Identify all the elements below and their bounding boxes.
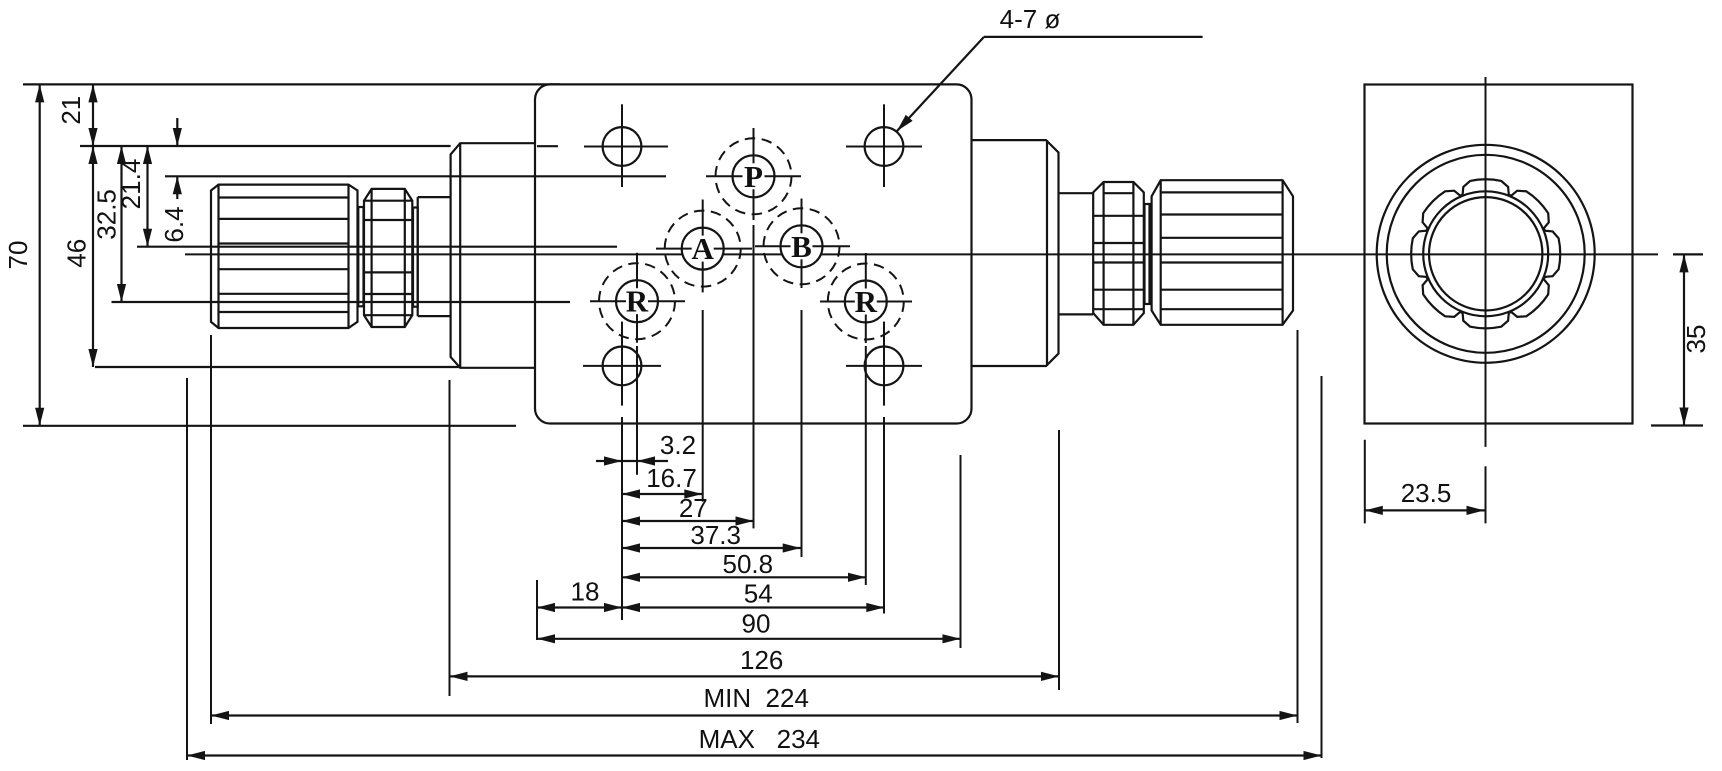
- dimension 54: [622, 606, 884, 608]
- extension line 6.4 / P center y176: [165, 175, 666, 177]
- washer 3: [1145, 204, 1150, 304]
- end view chamfer circle: [1387, 155, 1585, 353]
- port R letter: [626, 288, 648, 314]
- svg-text:37.3: 37.3: [690, 520, 741, 550]
- dimension 16.7: [622, 493, 702, 495]
- svg-text:18: 18: [571, 577, 600, 607]
- svg-text:21: 21: [56, 96, 86, 125]
- mounting hole top-left: [603, 127, 642, 166]
- dimension MIN: [211, 714, 1298, 716]
- svg-text:70: 70: [3, 241, 33, 270]
- surface line segment inside block: [537, 145, 558, 147]
- svg-text:R: R: [626, 284, 649, 319]
- dimension 3.2: [596, 460, 668, 462]
- svg-text:A: A: [692, 231, 715, 266]
- extension line bottom surface y367: [95, 366, 460, 368]
- svg-text:B: B: [791, 229, 812, 264]
- extension line top edge (70/21): [23, 83, 560, 85]
- callout 4-7 diameter leader: [984, 36, 1203, 38]
- dimension 21.4: [146, 146, 148, 247]
- left flange: [451, 143, 535, 368]
- extension line 32.5 y302: [112, 301, 571, 303]
- svg-text:27: 27: [679, 493, 708, 523]
- svg-text:MAX 234: MAX 234: [699, 724, 820, 754]
- end view knurled knob profile: [1411, 179, 1560, 328]
- left stem: [418, 196, 451, 198]
- port B letter: [791, 233, 813, 259]
- end view square: [1365, 85, 1633, 424]
- svg-text:16.7: 16.7: [646, 463, 697, 493]
- left locknut: [364, 189, 412, 327]
- svg-text:P: P: [744, 159, 763, 194]
- port extension lines down: [621, 417, 623, 620]
- right locknut knurl lines: [1104, 192, 1134, 194]
- dimension 23.5: [1364, 440, 1366, 524]
- svg-text:23.5: 23.5: [1401, 478, 1452, 508]
- port A dashed pitch circle: [665, 211, 741, 287]
- port B cross lines: [755, 245, 850, 247]
- dimension 18: [537, 606, 622, 608]
- extension line top surface y146: [80, 145, 451, 147]
- dimension 21: [92, 84, 94, 146]
- right flange: [972, 140, 1059, 366]
- svg-text:54: 54: [744, 579, 773, 609]
- svg-text:90: 90: [742, 609, 771, 639]
- left knob inner edges: [217, 185, 219, 328]
- valve body block: [535, 84, 972, 423]
- extension line bottom (70) y426: [23, 425, 516, 427]
- svg-text:126: 126: [740, 645, 783, 675]
- svg-text:21.4: 21.4: [116, 159, 146, 210]
- port R cross lines: [590, 300, 685, 302]
- right knob body: [1152, 180, 1293, 325]
- svg-text:3.2: 3.2: [660, 430, 696, 460]
- svg-text:4-7 ø: 4-7 ø: [1000, 4, 1061, 34]
- port R circle: [616, 280, 658, 322]
- extension line 21.4 y247: [137, 246, 617, 248]
- right locknut: [1093, 182, 1144, 325]
- left locknut knurl lines: [364, 200, 412, 202]
- port B dashed pitch circle: [764, 208, 840, 284]
- svg-text:35: 35: [1681, 325, 1711, 354]
- right neck: [1059, 192, 1094, 194]
- mounting hole bottom-right: [865, 347, 904, 386]
- port R dashed pitch circle: [828, 264, 904, 340]
- washer 2: [413, 208, 418, 307]
- left knob body: [211, 185, 358, 328]
- dimension 37.3: [622, 547, 801, 549]
- port R circle: [845, 281, 887, 323]
- main centerline: [185, 253, 1658, 255]
- dimension 6.4: [176, 118, 178, 146]
- dimension 32.5: [120, 146, 122, 302]
- dimension 27: [622, 520, 754, 522]
- port A letter: [692, 236, 714, 262]
- end view outer circle: [1377, 145, 1595, 363]
- port R dashed pitch circle: [599, 263, 675, 339]
- svg-text:MIN 224: MIN 224: [703, 683, 809, 713]
- port R letter: [855, 289, 877, 315]
- svg-text:50.8: 50.8: [722, 549, 773, 579]
- dimension 35: [1673, 253, 1703, 255]
- svg-text:46: 46: [61, 239, 91, 268]
- svg-text:6.4: 6.4: [159, 206, 189, 242]
- end view bore circles: [1423, 191, 1548, 316]
- right knob knurl lines: [1161, 191, 1283, 193]
- dimension 90: [537, 638, 961, 640]
- mounting hole bottom-left: [603, 347, 642, 386]
- port R cross lines: [820, 301, 912, 303]
- dimension 50.8: [622, 576, 866, 578]
- port A circle: [682, 228, 724, 270]
- port P circle: [733, 155, 775, 197]
- washer between left knob and locknut: [358, 207, 363, 306]
- svg-text:R: R: [855, 284, 878, 319]
- port P dashed pitch circle: [716, 138, 792, 214]
- port P letter: [743, 163, 765, 189]
- port A cross lines: [656, 248, 752, 250]
- port B circle: [781, 225, 823, 267]
- dimension MAX: [187, 754, 1322, 756]
- port P cross lines: [706, 175, 801, 177]
- dimension 46: [92, 146, 94, 367]
- end view vertical centerline: [1485, 77, 1487, 447]
- mounting hole top-right: [865, 127, 904, 166]
- dimension 70: [39, 84, 41, 425]
- dimension 126: [450, 675, 1060, 677]
- left knob knurl lines: [219, 196, 349, 198]
